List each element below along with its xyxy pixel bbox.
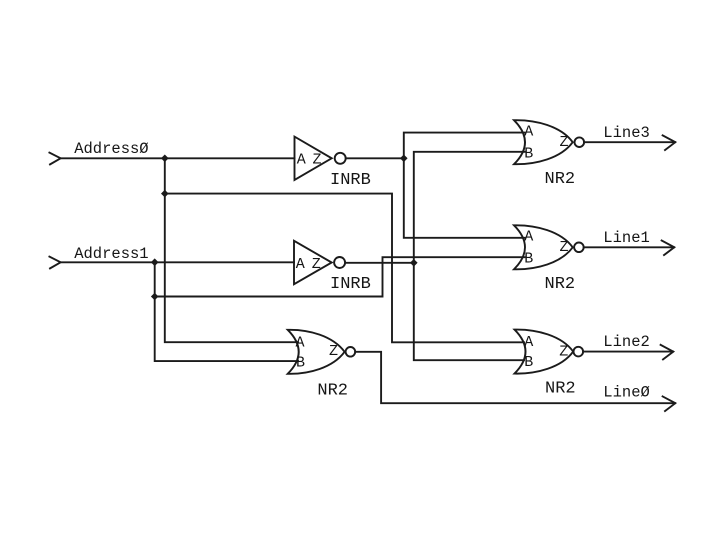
svg-text:Z: Z xyxy=(329,343,338,360)
output arrow Line1 xyxy=(662,241,675,256)
wire Address1 branch to NR2 U2 input B xyxy=(155,257,525,296)
svg-text:Z: Z xyxy=(560,134,569,151)
output arrow Line0 xyxy=(663,396,676,411)
svg-text:Address1: Address1 xyxy=(74,245,148,263)
svg-text:Z: Z xyxy=(560,239,569,256)
bubble of U2 output xyxy=(334,257,345,268)
wire G4 output to Line0 xyxy=(355,352,675,403)
node J2 junction Address0 branch xyxy=(161,190,169,198)
NOR gate G4 NR2 (Line0) body xyxy=(288,330,345,374)
bubble of U1 output xyxy=(335,153,346,164)
wire U1 output to NR2 U1g input A (up branch) xyxy=(404,133,525,159)
svg-text:A: A xyxy=(524,123,533,140)
svg-text:A: A xyxy=(524,228,533,245)
node J6 junction inverter U2 output xyxy=(410,259,418,267)
svg-text:B: B xyxy=(524,145,533,162)
NOR gate G3 NR2 (Line2) body xyxy=(515,330,574,374)
svg-text:B: B xyxy=(524,250,533,267)
svg-text:NR2: NR2 xyxy=(545,275,576,294)
wire U2 output to NR2 U3 input B (down branch) xyxy=(414,263,524,360)
bubble of G3 output xyxy=(574,347,584,357)
svg-text:Z: Z xyxy=(559,343,568,360)
svg-text:A: A xyxy=(297,152,306,169)
svg-text:A: A xyxy=(296,334,305,351)
wire U1 output to NR2 U2 input A (down branch) xyxy=(404,158,525,238)
wire U2 output xyxy=(345,262,414,264)
bubble of G4 output xyxy=(346,347,356,357)
svg-text:A: A xyxy=(296,256,305,273)
svg-text:Line2: Line2 xyxy=(603,333,650,351)
node J1 junction of Address0 with vertical xyxy=(161,155,169,163)
inverter U2 INRB triangle xyxy=(294,241,332,284)
wire vertical Address0 down to NR2 U4 input A xyxy=(165,158,298,342)
svg-text:LineØ: LineØ xyxy=(603,384,650,402)
node J4 junction Address1 branch xyxy=(151,293,159,301)
svg-text:NR2: NR2 xyxy=(545,379,576,398)
bubble of G2 output xyxy=(574,243,584,253)
input port Address0 chevron xyxy=(49,153,60,165)
svg-text:B: B xyxy=(296,355,305,372)
NOR gate G2 NR2 (Line1) body xyxy=(514,225,573,269)
node J3 junction of Address1 with vertical xyxy=(151,258,159,266)
inverter U1 INRB triangle xyxy=(295,137,332,180)
wire Address1 net xyxy=(61,261,294,263)
svg-text:B: B xyxy=(524,354,533,371)
wire vertical Address1 down to NR2 U4 input B xyxy=(155,262,298,361)
svg-text:NR2: NR2 xyxy=(317,382,348,401)
node J5 junction inverter U1 output xyxy=(400,155,408,163)
svg-text:Z: Z xyxy=(312,256,321,273)
wire G3 output Line2 xyxy=(583,351,673,353)
output arrow Line3 xyxy=(663,135,676,150)
svg-text:AddressØ: AddressØ xyxy=(74,140,148,158)
svg-text:Z: Z xyxy=(313,152,322,169)
svg-text:INRB: INRB xyxy=(330,275,371,294)
bubble of G1 output xyxy=(575,137,585,147)
svg-text:INRB: INRB xyxy=(330,171,371,190)
output arrow Line2 xyxy=(661,345,674,360)
wire G2 output Line1 xyxy=(584,246,674,248)
svg-text:NR2: NR2 xyxy=(545,170,576,189)
svg-text:A: A xyxy=(524,334,533,351)
input port Address1 chevron xyxy=(49,257,60,269)
wire U1 output xyxy=(346,157,404,159)
svg-text:Line3: Line3 xyxy=(603,124,650,142)
NOR gate G1 NR2 (Line3) body xyxy=(514,120,573,164)
wire Address0 branch to NR2 U3 input A xyxy=(165,194,524,343)
svg-text:Line1: Line1 xyxy=(603,229,650,247)
wire Address0 net xyxy=(61,157,295,159)
wire U2 output to NR2 U1g input B (up branch) xyxy=(414,152,525,263)
wire G1 output Line3 xyxy=(584,141,675,143)
